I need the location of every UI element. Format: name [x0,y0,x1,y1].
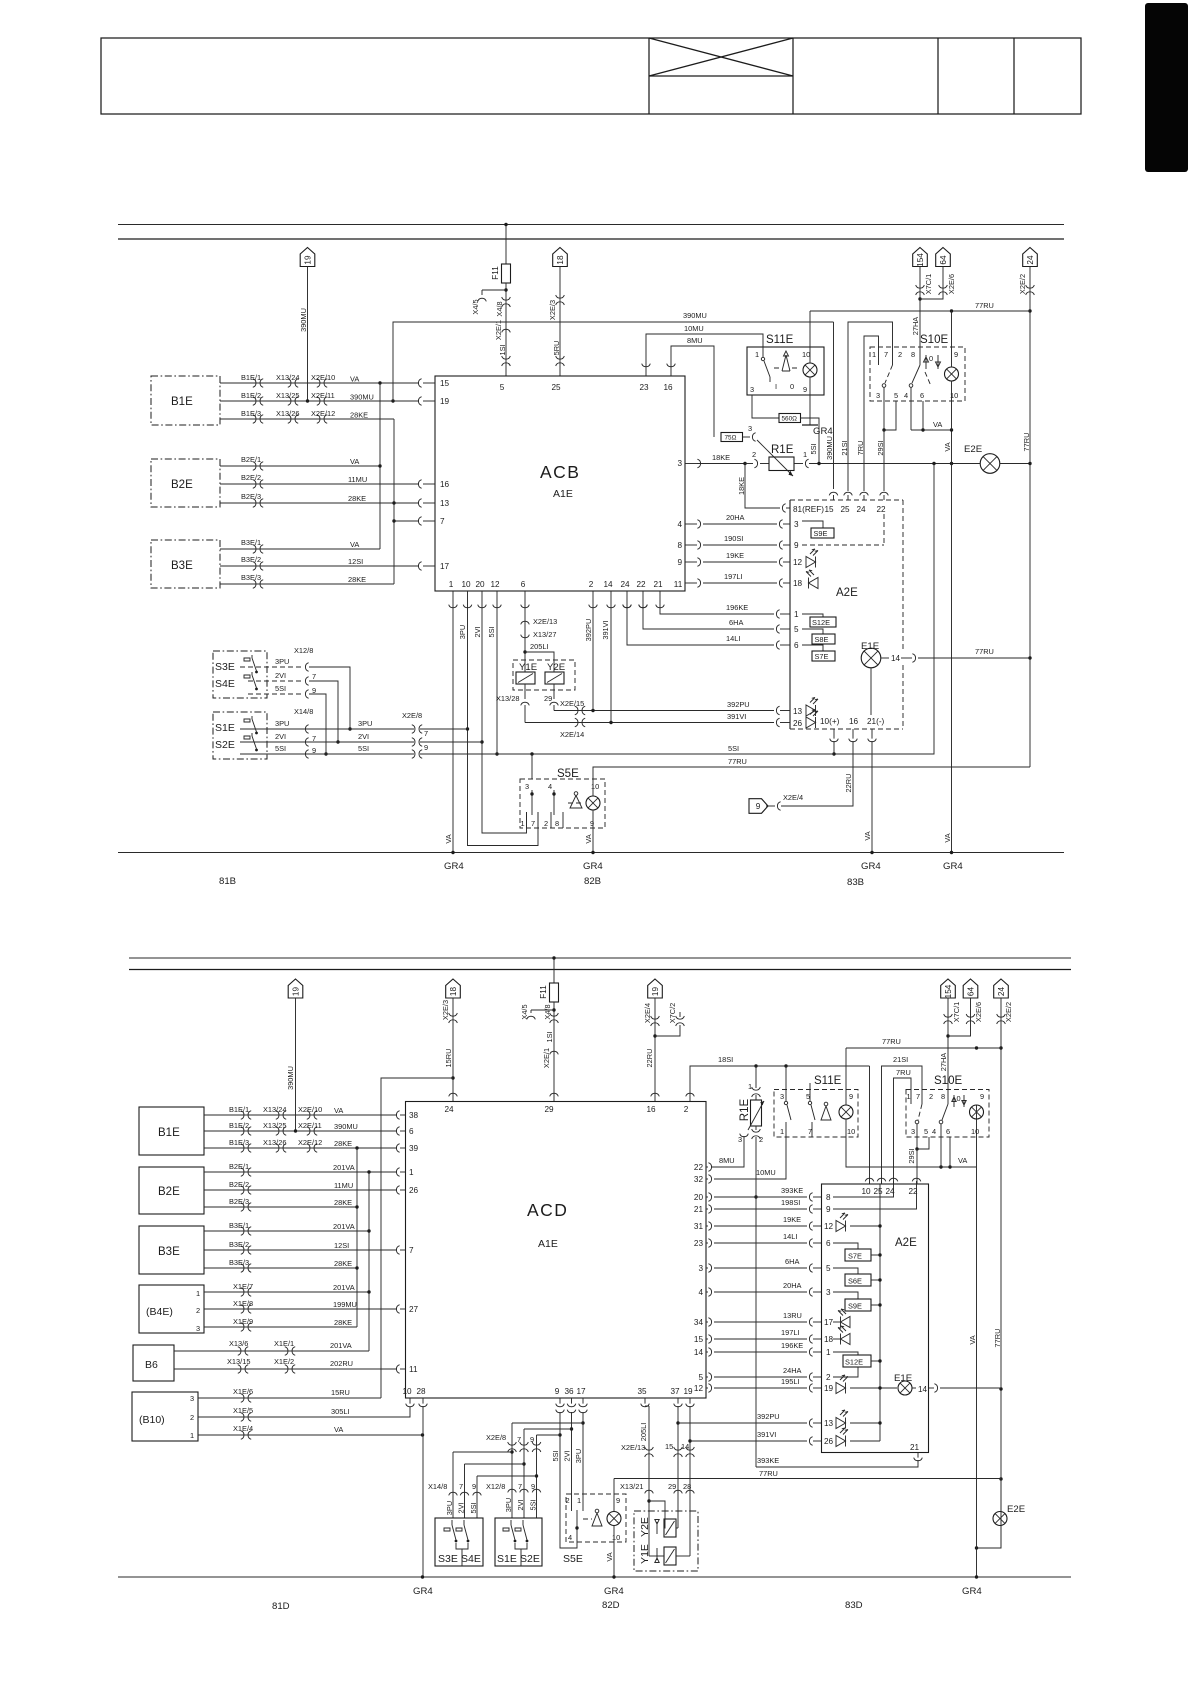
svg-text:154: 154 [944,984,953,998]
E1E lamp to A2E pin 21 [870,668,872,715]
svg-text:198SI: 198SI [781,1198,800,1207]
svg-text:S2E: S2E [215,739,235,751]
svg-text:15RU: 15RU [331,1388,350,1397]
svg-text:X13/21: X13/21 [620,1482,643,1491]
S11E switch 2 [809,1083,811,1101]
svg-text:391VI: 391VI [757,1430,776,1439]
wire 201VA chain vertical [368,1172,370,1351]
svg-text:20HA: 20HA [783,1281,802,1290]
svg-text:VA: VA [943,442,952,451]
svg-text:11: 11 [674,580,683,589]
wire VA vertical to ground [951,430,953,853]
svg-text:3: 3 [677,459,682,468]
wire 392PU pin13 row [554,710,774,712]
wire 5SI from R1E to E2E [809,463,981,465]
svg-text:22: 22 [636,580,646,589]
svg-text:7RU: 7RU [856,441,865,456]
svg-text:S10E: S10E [920,334,948,346]
svg-text:201VA: 201VA [333,1222,355,1231]
svg-text:Y1E: Y1E [519,662,537,673]
connector X7C/2 branch [679,1012,681,1017]
svg-text:19: 19 [440,397,450,406]
R1E pin 1 from 18SI [755,1066,757,1088]
svg-text:GR4: GR4 [444,861,464,872]
svg-text:5SI: 5SI [728,744,739,753]
svg-text:8: 8 [555,819,559,828]
S11E switch 1 [785,1066,787,1101]
svg-text:77RU: 77RU [882,1037,901,1046]
links to S3E columns [453,1451,512,1453]
wire 190SI ACB pin8 to A2E pin9 [685,544,697,546]
svg-text:VA: VA [350,540,359,549]
ACD pin 3 wire 6HA [706,1267,708,1269]
svg-text:32: 32 [694,1175,704,1184]
bottom ground bus B [118,852,1064,854]
svg-text:4: 4 [677,520,682,529]
potentiometer R1E (bottom) [751,1100,762,1126]
svg-text:B1E/2: B1E/2 [241,391,261,400]
svg-text:14LI: 14LI [726,634,740,643]
svg-text:X1E/1: X1E/1 [274,1339,294,1348]
branch X4/5 [531,1009,554,1011]
svg-text:29: 29 [544,1105,554,1114]
bus line 1 [118,224,1064,226]
S10E switch 1 contact [918,1104,922,1120]
svg-text:19: 19 [651,987,660,997]
svg-text:2VI: 2VI [275,732,286,741]
S11E switch contact [762,347,764,357]
svg-text:3PU: 3PU [504,1498,513,1512]
svg-text:X13/25: X13/25 [263,1121,286,1130]
svg-text:29SI: 29SI [876,440,885,455]
svg-text:B2E: B2E [158,1186,180,1198]
wire 390MU vertical into A2E pin 15 [833,322,835,489]
svg-text:1: 1 [409,1168,414,1177]
svg-text:154: 154 [916,253,925,267]
B1E row 2 wire 390MU [220,400,419,402]
svg-text:3PU: 3PU [275,719,289,728]
svg-text:7: 7 [808,1127,812,1136]
svg-text:15RU: 15RU [444,1049,453,1068]
svg-text:390MU: 390MU [286,1066,295,1090]
wire 19KE ACB pin9 to A2E pin12 [685,561,697,563]
svg-text:7: 7 [518,1482,522,1491]
svg-text:ACB: ACB [540,462,580,482]
arrow 64 [936,248,951,267]
svg-text:9: 9 [849,1092,853,1101]
svg-text:15: 15 [440,379,450,388]
svg-text:VA: VA [334,1106,343,1115]
svg-text:X2E/3: X2E/3 [548,300,557,320]
svg-text:64: 64 [967,987,976,997]
svg-text:1: 1 [872,350,876,359]
Y2E bottom to X2E/15 wire [553,684,555,699]
wire 5SI return vertical [834,464,934,755]
wire 77RU top horizontal [846,1047,1001,1049]
svg-text:VA: VA [933,420,942,429]
component B1E [151,376,220,425]
svg-text:9: 9 [756,802,761,811]
switch S6E internal [833,1268,858,1274]
svg-text:3PU: 3PU [574,1449,583,1463]
component B3E [139,1226,204,1274]
svg-text:81(REF): 81(REF) [793,505,824,514]
svg-text:12: 12 [490,580,500,589]
svg-text:20: 20 [694,1193,704,1202]
wire 18SI down to A2E pin 10 [869,1066,871,1184]
A2E pin21 VA to ground [871,741,873,853]
svg-text:3: 3 [876,391,880,400]
svg-text:5SI: 5SI [469,1502,478,1513]
svg-text:5: 5 [698,1373,703,1382]
ACD pin 37 column 392PU [674,1404,683,1407]
svg-text:81B: 81B [219,876,236,887]
wire 28KE chain vertical [356,1148,358,1327]
fuse F11 feed from bus [505,225,507,265]
svg-text:12: 12 [824,1222,834,1231]
svg-text:6HA: 6HA [729,618,743,627]
switch S1E / S2E (bottom) [495,1518,542,1566]
svg-text:29: 29 [544,694,552,703]
svg-text:S2E: S2E [520,1553,540,1565]
arrow 24 [1023,248,1038,267]
svg-text:205LI: 205LI [639,1423,648,1442]
svg-text:24: 24 [856,505,866,514]
svg-text:2: 2 [589,580,594,589]
svg-text:B1E/3: B1E/3 [229,1138,249,1147]
B4E row3 28KE [204,1326,357,1328]
svg-text:22: 22 [694,1163,704,1172]
svg-text:29: 29 [668,1482,676,1491]
svg-text:R1E: R1E [771,444,794,456]
svg-text:6: 6 [521,580,526,589]
svg-text:5: 5 [924,1127,928,1136]
ACD pin 22 wire 8MU [706,1166,708,1168]
S11E pin 9 ground GR4 [809,395,811,425]
connector X4/8 [502,297,511,307]
svg-text:VA: VA [350,375,359,384]
wire 392PU to A2E pin 13 [678,1422,807,1424]
LED at pin 12 [836,1213,848,1232]
B1E row 3 wire 28KE [220,418,394,420]
svg-text:VA: VA [863,831,872,840]
svg-text:18: 18 [449,987,458,997]
svg-text:3: 3 [780,1092,784,1101]
svg-text:S1E: S1E [215,722,235,734]
svg-text:A2E: A2E [836,587,858,599]
svg-text:VA: VA [350,457,359,466]
svg-text:9: 9 [826,1205,831,1214]
svg-text:77RU: 77RU [1022,433,1031,452]
svg-text:2VI: 2VI [473,626,482,637]
svg-text:5: 5 [894,391,898,400]
svg-text:F11: F11 [491,266,500,280]
svg-text:14: 14 [891,654,901,663]
wire 18KE branch down to A2E 81REF [745,464,780,509]
ACD pin 32 wire 10MU to S11E pin 1 [706,1178,708,1180]
svg-text:24: 24 [997,987,1006,997]
svg-text:X2E/2: X2E/2 [1018,274,1027,294]
svg-text:S10E: S10E [934,1075,962,1087]
svg-text:10(+): 10(+) [820,717,840,726]
svg-text:0: 0 [929,354,933,363]
svg-text:205LI: 205LI [530,642,549,651]
svg-text:1: 1 [449,580,454,589]
A2E pin 8 internal to pin 24 [833,1184,894,1197]
svg-text:E2E: E2E [964,444,982,455]
svg-text:82D: 82D [602,1600,620,1611]
svg-text:27HA: 27HA [939,1053,948,1072]
svg-text:X2E/12: X2E/12 [298,1138,322,1147]
svg-text:23: 23 [639,383,649,392]
svg-text:2: 2 [826,1373,831,1382]
svg-text:1: 1 [755,350,759,359]
LED at pin 17 [838,1309,850,1328]
switch S1E / S2E [213,712,267,759]
resistor 560ohm [779,414,801,423]
svg-text:GR4: GR4 [583,861,603,872]
svg-text:9: 9 [531,1482,535,1491]
svg-text:S6E: S6E [848,1277,862,1286]
svg-text:17: 17 [440,562,450,571]
signal unit S5E [531,754,533,779]
ACB pin 11 wire 197LI (right edge) [684,582,686,584]
svg-text:X2E/10: X2E/10 [311,373,335,382]
ACD pin 14 wire 196KE [706,1351,708,1353]
S11E lamp [839,1105,853,1119]
svg-text:X2E/6: X2E/6 [974,1002,983,1022]
svg-text:10: 10 [971,1127,979,1136]
signal unit S5E (bottom) [566,1494,626,1542]
crossover 3PU to X2E/8 [512,1422,583,1424]
ACD pin 35 column 205LI [641,1404,650,1407]
svg-text:X2E/11: X2E/11 [311,391,335,400]
svg-text:6: 6 [826,1239,831,1248]
svg-text:77RU: 77RU [728,757,747,766]
ECU box ACB A1E [435,376,685,591]
svg-text:B2E/3: B2E/3 [241,492,261,501]
svg-text:24: 24 [444,1105,454,1114]
wire VA vertical to ground (bottom) [976,1105,978,1577]
S5E contact [575,1526,578,1529]
svg-text:X13/27: X13/27 [533,630,556,639]
component B2E [139,1167,204,1214]
svg-text:X1E/2: X1E/2 [274,1357,294,1366]
wire 77RU horizontal (bottom) [614,1478,1001,1480]
A2E internal common rail [879,1184,881,1441]
svg-text:28: 28 [683,1482,691,1491]
svg-text:A1E: A1E [553,488,573,500]
svg-text:B3E/3: B3E/3 [229,1258,249,1267]
svg-text:X2E/4: X2E/4 [783,793,803,802]
svg-text:15: 15 [694,1335,704,1344]
svg-text:6: 6 [794,641,799,650]
title block outer frame [101,38,1081,114]
svg-text:18KE: 18KE [737,477,746,495]
svg-text:10: 10 [802,350,810,359]
wire 28KE chain vertical [393,419,395,584]
svg-text:GR4: GR4 [943,861,963,872]
S5E switch contacts [531,790,533,815]
svg-text:24: 24 [620,580,630,589]
svg-text:3: 3 [698,1264,703,1273]
svg-text:X2E/12: X2E/12 [311,409,335,418]
svg-text:392PU: 392PU [584,619,593,642]
switch S3E / S4E [213,651,267,698]
svg-text:X2E/13: X2E/13 [533,617,557,626]
control unit A2E (bottom diagram) [822,1184,929,1453]
svg-text:VA: VA [444,834,453,843]
svg-text:B3E/1: B3E/1 [229,1221,249,1230]
svg-text:81D: 81D [272,1601,290,1612]
svg-text:28KE: 28KE [348,494,366,503]
svg-text:5SI: 5SI [358,744,369,753]
S11E pin 3 wire to 560 ohm [752,395,779,418]
svg-text:38: 38 [409,1111,419,1120]
svg-text:5SI: 5SI [275,744,286,753]
connector 1 on R1E output [794,463,803,465]
svg-text:X2E/3: X2E/3 [441,1000,450,1020]
svg-text:9: 9 [803,385,807,394]
svg-text:A2E: A2E [895,1237,917,1249]
svg-text:8: 8 [941,1092,945,1101]
switch S12E internal [833,1352,858,1355]
switch S8E internal [802,629,823,634]
wire 15RU branch to (B10) [381,1078,453,1398]
crossed-out logo cell [649,75,793,77]
svg-text:11: 11 [409,1365,418,1374]
svg-text:X13/26: X13/26 [263,1138,286,1147]
svg-text:X13/24: X13/24 [263,1105,286,1114]
svg-text:8: 8 [826,1193,831,1202]
svg-text:4: 4 [568,1533,572,1542]
A2E pin 9 internal to pin 22 [833,1184,917,1209]
relay Y1E coil [516,672,535,684]
switch S7E internal [833,1243,858,1249]
LED at pin 19 and lamp E1E [836,1375,848,1394]
svg-text:ACD: ACD [527,1200,568,1220]
wire VA chain vertical [379,383,381,549]
svg-text:3PU: 3PU [358,719,372,728]
svg-text:VA: VA [968,1335,977,1344]
svg-text:6: 6 [946,1127,950,1136]
potentiometer R1E wiper [757,440,793,476]
switch module S11E (bottom, dashed) [774,1090,858,1138]
svg-text:VA: VA [605,1552,614,1561]
svg-text:3: 3 [748,424,752,433]
arrow 19 (second) [648,979,663,998]
svg-text:19: 19 [824,1384,834,1393]
svg-text:77RU: 77RU [759,1469,778,1478]
ACD pin 36 column 2VI [567,1404,576,1407]
svg-text:3: 3 [525,782,529,791]
ACD pin 4 wire 20HA [706,1291,708,1293]
B2E row2 11MU [204,1189,397,1191]
svg-text:9: 9 [980,1092,984,1101]
svg-text:28KE: 28KE [334,1318,352,1327]
B10 row1 15RU [198,1397,381,1399]
svg-text:B1E: B1E [158,1127,180,1139]
svg-text:10: 10 [861,1187,871,1196]
switch module S10E (bottom, dashed) [906,1090,989,1138]
svg-text:12SI: 12SI [334,1241,349,1250]
component B2E [151,459,220,507]
svg-text:201VA: 201VA [333,1163,355,1172]
svg-text:S7E: S7E [848,1252,862,1261]
svg-text:1: 1 [826,1348,831,1357]
svg-text:29SI: 29SI [907,1148,916,1163]
svg-text:10MU: 10MU [684,324,704,333]
svg-text:28KE: 28KE [334,1198,352,1207]
svg-text:VA: VA [958,1156,967,1165]
fuse F11 [502,264,511,283]
svg-text:X2E/1: X2E/1 [494,320,503,340]
svg-text:27: 27 [409,1305,419,1314]
wire 29SI to A2E pin 22 [916,1149,918,1184]
svg-text:17: 17 [824,1318,834,1327]
svg-text:18SI: 18SI [718,1055,733,1064]
svg-text:2: 2 [684,1105,689,1114]
svg-text:S9E: S9E [848,1302,862,1311]
wire 22RU from arrow 19 to ACD pin 16 [654,998,656,1102]
svg-text:14: 14 [918,1385,928,1394]
svg-text:B2E/2: B2E/2 [241,473,261,482]
svg-text:15: 15 [665,1442,673,1451]
B3E row 1 wire VA [220,548,380,550]
svg-text:5SI: 5SI [809,443,818,454]
svg-text:12: 12 [694,1384,704,1393]
svg-text:1: 1 [521,819,525,828]
title block divider x1014 [1013,38,1015,114]
svg-text:8: 8 [911,350,915,359]
svg-text:X2E/15: X2E/15 [560,699,584,708]
B3E row1 201VA [204,1230,369,1232]
svg-text:9: 9 [677,558,682,567]
svg-text:11MU: 11MU [334,1181,353,1190]
svg-text:7: 7 [440,517,445,526]
connector X4/5 [478,298,487,301]
svg-text:GR4: GR4 [813,426,833,437]
svg-text:1: 1 [577,1496,581,1505]
title block divider x938 [937,38,939,114]
svg-text:15: 15 [824,505,834,514]
svg-text:2VI: 2VI [275,671,286,680]
svg-text:31: 31 [694,1222,704,1231]
svg-text:2VI: 2VI [457,1502,466,1513]
svg-text:2: 2 [898,350,902,359]
wire 7RU loop to S10E pin 1 [894,1078,912,1184]
svg-text:5: 5 [500,383,505,392]
svg-text:9: 9 [590,819,594,828]
svg-text:5RU: 5RU [552,341,561,356]
svg-text:390MU: 390MU [350,393,374,402]
S10E pin 4/6 VA wire [922,401,924,430]
wire 21SI loop S10E pin 7 [848,322,893,491]
svg-text:5: 5 [826,1264,831,1273]
control unit A2E (top diagram) [789,500,791,729]
svg-text:F11: F11 [539,985,548,999]
arrow 18 [446,979,461,998]
switch S3E / S4E (bottom) [435,1518,483,1566]
svg-text:202RU: 202RU [330,1359,353,1368]
svg-text:X2E/6: X2E/6 [947,274,956,294]
S11E position indicator [774,367,798,369]
svg-text:S8E: S8E [815,635,829,644]
S10E switch 2 contact [942,1104,948,1120]
S10E position arrows [952,1095,956,1107]
wire X2E/6 from arrow 64 [920,267,943,300]
svg-text:1: 1 [748,1082,752,1091]
